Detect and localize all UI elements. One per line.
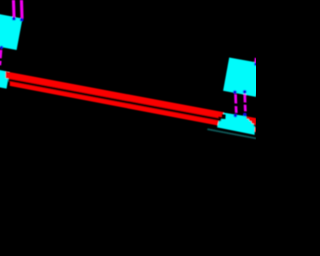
node: blue dot D1 top	[233, 90, 237, 94]
node C: cyan pedestal bottom-right	[217, 113, 255, 135]
wire: red road double stripe (main segment, stepped ends)	[6, 71, 224, 125]
wire: dark teal underline below pedestal	[207, 128, 256, 139]
node: blue dot D2 top	[243, 90, 247, 94]
wire: magenta dash D2 lower	[244, 105, 247, 112]
node D: small cyan building at left road start	[0, 69, 10, 88]
node: blue dot top-right edge	[254, 62, 257, 65]
wire: magenta dash D2 upper	[243, 94, 246, 103]
node: blue dot at L1 end	[12, 17, 16, 21]
wire: magenta line L1 from top edge	[12, 0, 16, 18]
wire: dark median separator of road	[9, 79, 256, 128]
node: blue dot at L2 end	[20, 18, 24, 22]
node A: cyan building top-left	[0, 13, 22, 50]
wire: magenta dash D1 upper	[234, 94, 237, 103]
wire: magenta blob top-right edge	[254, 58, 257, 63]
wire: magenta line L2 from top edge	[20, 0, 24, 19]
wire: magenta dash left edge (upper)	[0, 50, 2, 59]
node: blue dot D1 bottom	[234, 114, 238, 118]
node: blue dot D2 bottom	[243, 113, 247, 117]
wire: red road wedge at right edge	[247, 116, 256, 132]
node B: cyan building top-right	[223, 58, 262, 97]
wire: magenta dash D1 lower	[235, 106, 238, 113]
wire: magenta dash left edge (lower)	[0, 61, 2, 66]
node: blue dot left edge below building A	[0, 46, 3, 49]
